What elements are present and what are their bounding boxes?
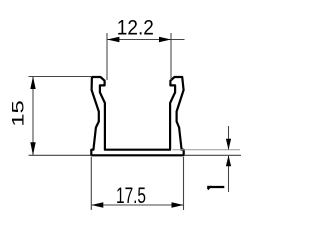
svg-text:12.2: 12.2 <box>117 17 154 40</box>
svg-text:15: 15 <box>9 100 28 127</box>
dimension 1: lower extension line <box>184 154 241 156</box>
dimension 12.2: left extension line <box>106 33 108 80</box>
dimension 15: bottom extension line <box>29 154 92 156</box>
dimension 15: top extension line <box>29 76 93 78</box>
dimension 17.5: left arrowhead <box>91 202 103 207</box>
profile outline (U-channel cross-section) <box>91 77 183 155</box>
dimension 17.5: right arrowhead <box>172 202 184 207</box>
dimension 1: lower arrowhead (points up) <box>226 155 231 166</box>
dimension 1: lower dimension line <box>228 156 230 192</box>
dimension 12.2: right extension line <box>170 33 172 80</box>
dimension 12.2: left arrowhead <box>107 37 119 42</box>
dimension 1: upper dimension line <box>228 126 230 150</box>
dimension 1: upper extension line <box>173 149 241 151</box>
dimension 17.5: left extension line <box>90 157 92 210</box>
dimension 15: top arrowhead <box>30 77 35 90</box>
dimension 17.5: right extension line <box>183 157 185 210</box>
dimension 15: bottom arrowhead <box>30 142 35 155</box>
dimension 17.5: dimension line <box>91 204 183 206</box>
dimension 15: dimension line <box>32 77 34 156</box>
dimension 1: upper arrowhead (points down) <box>226 139 231 150</box>
dimension 12.2: dimension line <box>107 39 185 41</box>
dimension 12.2: right arrowhead <box>159 37 171 42</box>
svg-text:17.5: 17.5 <box>116 183 146 208</box>
dimension text 1 (rotated digit drawn as path) <box>208 186 225 188</box>
